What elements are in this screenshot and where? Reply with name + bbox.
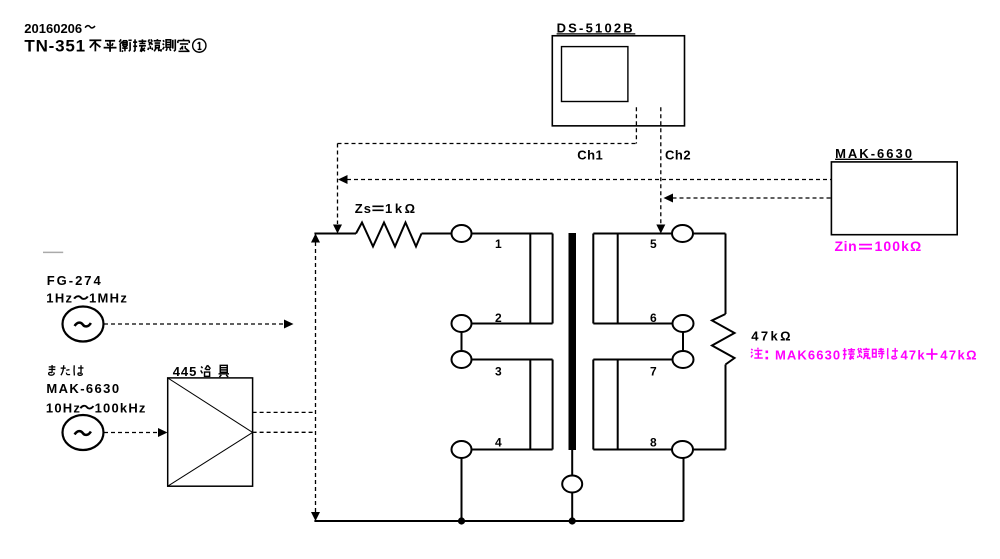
- svg-text:DS-5102B: DS-5102B: [557, 20, 635, 35]
- dashed output FG-274: [104, 323, 284, 325]
- svg-text:47kΩ: 47kΩ: [751, 328, 793, 343]
- core stem bottom: [571, 493, 573, 522]
- svg-text:7: 7: [650, 364, 657, 378]
- svg-text:MAK-6630: MAK-6630: [835, 146, 914, 161]
- terminal 3 circle: [452, 351, 472, 368]
- svg-text:20160206: 20160206: [24, 21, 82, 36]
- main wires and transformer, solid: [314, 223, 734, 522]
- link terminal 6-7: [682, 332, 684, 352]
- winding P1 right vertical: [552, 234, 554, 324]
- dashed probe line Ch1 vertical from scope: [338, 107, 637, 224]
- terminal 7 circle: [673, 351, 694, 368]
- svg-text:1: 1: [495, 237, 502, 251]
- junction dot left: [458, 517, 465, 524]
- 445 jig triangle upper edge: [168, 378, 253, 433]
- oscilloscope DS-5102B box: [552, 36, 684, 126]
- center tap circle: [562, 476, 582, 493]
- dashed probe line Ch1 horizontal: [338, 143, 637, 145]
- svg-text:10Hz: 10Hz: [46, 400, 81, 415]
- Zin=100kΩ label: [835, 238, 923, 254]
- terminal 8 circle: [672, 441, 693, 458]
- winding P2 right vertical: [552, 360, 554, 450]
- gray tick mark: [43, 251, 63, 253]
- svg-text:TN-351: TN-351: [24, 37, 86, 56]
- svg-text:100kΩ: 100kΩ: [875, 238, 923, 254]
- wire terminal 8 to right rail: [693, 449, 726, 451]
- arrowhead left at Ch1 net: [338, 175, 348, 184]
- sine symbol in MAK source: [75, 431, 91, 435]
- svg-text:47kΩ: 47kΩ: [940, 348, 978, 363]
- 445冶具 label: [173, 364, 229, 379]
- stem terminal 8 to bus: [683, 459, 685, 522]
- svg-text:Ch1: Ch1: [577, 147, 603, 162]
- svg-text:4: 4: [495, 436, 502, 450]
- svg-text:MAK6630: MAK6630: [775, 348, 841, 363]
- arrowhead Ch1 down: [333, 225, 342, 234]
- wire winding to terminal 5: [593, 233, 672, 235]
- svg-text:5: 5: [650, 237, 657, 251]
- wire winding to terminal 8: [593, 449, 672, 451]
- winding S2 right vertical: [617, 360, 619, 450]
- terminal 5 circle: [672, 225, 693, 242]
- right rail lower: [725, 365, 727, 450]
- svg-text:47k: 47k: [901, 348, 926, 363]
- dashed jig output lower: [253, 431, 316, 433]
- dashed jig output upper: [253, 411, 316, 413]
- core stem top: [571, 450, 573, 476]
- svg-text:MAK-6630: MAK-6630: [46, 381, 120, 396]
- arrowhead up to top wire: [311, 234, 320, 243]
- svg-text:Zs: Zs: [355, 201, 372, 216]
- resistor Zs 1k zigzag: [356, 223, 422, 247]
- dashed output MAK source: [104, 432, 158, 434]
- source MAK-6630 circle: [63, 415, 104, 450]
- winding S2 left vertical: [592, 360, 594, 450]
- wire terminal 5 to right rail: [693, 233, 726, 235]
- wire winding to terminal 7: [593, 359, 672, 361]
- winding P1 left vertical: [529, 234, 531, 324]
- range label 10Hz～100kHz: [46, 400, 147, 415]
- dashed probe line Ch1 left vertical: [337, 144, 339, 225]
- FG-274 range label 1Hz～1MHz: [46, 291, 128, 306]
- winding S1 right vertical: [617, 234, 619, 324]
- dashed probe line Ch2 vertical: [660, 107, 662, 224]
- junction dot center: [569, 517, 576, 524]
- arrowhead down to bottom wire: [311, 512, 320, 521]
- ground bus bottom wire: [314, 520, 683, 522]
- arrowhead into 445 jig: [158, 428, 168, 437]
- winding S1 left vertical: [592, 234, 594, 324]
- svg-text:1Hz: 1Hz: [46, 291, 73, 306]
- svg-text:6: 6: [650, 311, 657, 325]
- terminal 6 circle: [673, 315, 694, 332]
- svg-text:Zin: Zin: [835, 238, 858, 254]
- wire terminal 1 to winding: [472, 233, 553, 235]
- dashed line MAK-6630 to Ch2 net: [673, 197, 832, 199]
- arrowhead left at Ch2 net: [664, 194, 674, 203]
- svg-text:8: 8: [650, 436, 657, 450]
- MAK-6630 meter label: [835, 146, 914, 161]
- dashed vertical feed line: [315, 242, 317, 513]
- svg-text:1MHz: 1MHz: [89, 291, 128, 306]
- stem terminal 4 down: [461, 458, 463, 521]
- 445 jig triangle lower edge: [168, 432, 253, 486]
- wire winding to terminal 6: [593, 323, 672, 325]
- winding P2 left vertical: [529, 360, 531, 450]
- sine symbol in FG-274: [75, 323, 91, 327]
- terminal 2 circle: [452, 315, 472, 332]
- title line 2: TN-351 不平衡接続測定①: [24, 37, 206, 56]
- Zs=1kΩ label: [355, 201, 418, 216]
- dashed line MAK-6630 to Ch1 net: [347, 179, 831, 181]
- arrowhead FG-274 output: [284, 320, 294, 329]
- MAK-6630 meter box: [831, 162, 957, 235]
- arrowhead Ch2 down: [656, 225, 665, 234]
- または label: [49, 365, 84, 376]
- svg-text:Ch2: Ch2: [665, 147, 691, 162]
- resistor 47k zigzag: [712, 314, 735, 365]
- right rail upper: [725, 234, 727, 315]
- 445 jig box: [168, 378, 253, 486]
- wire resistor to terminal 1: [422, 233, 452, 235]
- svg-text:100kHz: 100kHz: [95, 400, 147, 415]
- source FG-274 circle: [63, 307, 104, 342]
- title line 1: 20160206～: [24, 21, 95, 36]
- transformer core bar: [569, 233, 577, 450]
- wire terminal 4 to winding: [472, 449, 553, 451]
- svg-text:2: 2: [495, 311, 502, 325]
- svg-text:3: 3: [495, 364, 502, 378]
- oscilloscope DS-5102B label: [557, 20, 636, 35]
- svg-text:FG-274: FG-274: [47, 273, 103, 288]
- wire top left: [314, 233, 356, 235]
- wire terminal 3 to winding: [472, 359, 553, 361]
- link terminal 2-3: [461, 332, 463, 352]
- terminal 4 circle: [452, 441, 472, 458]
- svg-text:445: 445: [173, 364, 198, 379]
- wire terminal 2 to winding: [472, 323, 553, 325]
- oscilloscope screen: [562, 47, 628, 102]
- svg-text:1kΩ: 1kΩ: [385, 201, 418, 216]
- note magenta: 注:MAK6630接続時は47k＋47kΩ: [751, 348, 978, 363]
- terminal 1 circle: [452, 225, 472, 242]
